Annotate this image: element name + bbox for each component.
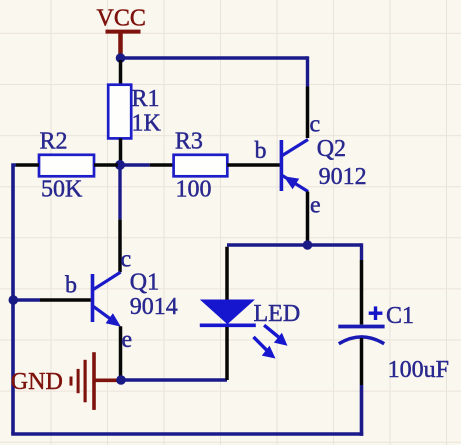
svg-text:e: e	[310, 193, 321, 219]
power symbol VCC bar	[106, 30, 141, 34]
wire bottom rail horizontal	[11, 432, 363, 436]
resistor R2	[39, 155, 94, 177]
LED light arrow upper	[264, 325, 287, 346]
pin C1 top lead	[360, 260, 364, 325]
svg-text:GND: GND	[11, 369, 63, 395]
pin LED cathode lead	[225, 327, 229, 380]
wire emitter rail horizontal	[227, 243, 362, 246]
wire junction to R3	[120, 163, 150, 166]
wire base node down	[118, 165, 121, 219]
pin R3 left lead	[150, 163, 174, 167]
pin R1 bottom lead	[119, 138, 123, 165]
transistor Q1 emitter diagonal with arrow	[94, 307, 121, 327]
svg-text:Q2: Q2	[317, 136, 346, 162]
capacitor C1 plus sign	[369, 306, 383, 320]
transistor Q2 base bar	[280, 140, 284, 191]
svg-text:b: b	[255, 138, 267, 164]
transistor Q2 collector diagonal	[283, 140, 309, 156]
wire VCC rail horizontal	[121, 56, 308, 59]
pin Q2 collector lead	[306, 87, 310, 139]
capacitor C1 bottom curved plate	[339, 337, 384, 344]
resistor R1	[108, 85, 131, 139]
wire C1 to bottom rail	[360, 385, 364, 436]
transistor Q2 emitter diagonal with arrow	[283, 176, 309, 192]
capacitor C1 top plate	[338, 325, 384, 329]
pin Q1 base lead	[40, 298, 91, 302]
transistor Q1 collector diagonal	[94, 272, 121, 289]
svg-text:9012: 9012	[319, 164, 367, 190]
svg-text:VCC: VCC	[97, 6, 146, 32]
junction base node R1/R2/R3	[115, 160, 125, 170]
svg-text:c: c	[310, 112, 321, 138]
power symbol VCC stem	[118, 33, 123, 57]
svg-text:Q1: Q1	[130, 270, 159, 296]
svg-text:R1: R1	[132, 86, 160, 112]
svg-text:e: e	[122, 327, 133, 353]
wire left rail to Q1 base	[13, 298, 40, 301]
svg-text:R3: R3	[175, 128, 203, 154]
wire VCC rail corner down to Q2	[306, 56, 309, 86]
pin R3 right lead to Q2 base	[227, 163, 279, 167]
pin R2 left lead	[16, 163, 39, 167]
svg-text:R2: R2	[40, 129, 68, 155]
resistor R3	[174, 155, 228, 177]
svg-text:100: 100	[176, 177, 212, 203]
junction VCC rail	[116, 53, 126, 63]
LED D1 triangle	[200, 300, 255, 325]
svg-text:9014: 9014	[130, 294, 178, 320]
svg-text:1K: 1K	[132, 111, 162, 137]
pin C1 bottom lead	[360, 338, 364, 385]
svg-text:50K: 50K	[41, 177, 83, 203]
wire left rail from R2 down	[13, 165, 16, 434]
junction left rail base node	[9, 295, 19, 305]
svg-text:b: b	[65, 273, 77, 299]
svg-text:C1: C1	[386, 303, 414, 329]
pin R1 top lead	[119, 60, 123, 85]
wire ground node to LED cathode	[121, 378, 227, 381]
transistor Q1 base bar	[91, 274, 95, 322]
pin Q1 collector lead	[118, 219, 122, 272]
junction ground node	[116, 375, 126, 385]
svg-text:100uF: 100uF	[388, 357, 449, 383]
wire emitter rail corner down to C1	[360, 243, 363, 260]
LED light arrow lower	[254, 337, 276, 359]
pin Q1 emitter lead	[119, 326, 123, 380]
pin R2 right lead	[94, 163, 118, 167]
LED D1 cathode bar	[200, 323, 256, 327]
pin Q2 emitter lead	[306, 192, 310, 246]
svg-text:LED: LED	[254, 301, 301, 327]
ground battery symbol	[71, 352, 119, 410]
junction Q2 emitter node	[303, 240, 313, 250]
pin LED anode lead	[225, 247, 229, 300]
